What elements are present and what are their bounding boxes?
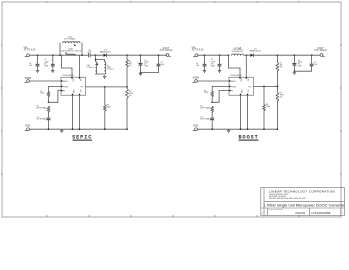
capacitor C5 output bbox=[139, 63, 143, 65]
wire C1 to gnd bbox=[37, 66, 39, 69]
node FB tap (BOOST) bbox=[263, 86, 265, 88]
wire U1 gnd pin1 drop (BOOST) bbox=[240, 95, 242, 129]
svg-text:SW: SW bbox=[246, 79, 248, 82]
node input cap C1 junction bbox=[37, 54, 39, 56]
wire FB jog to pin (BOOST) bbox=[219, 90, 229, 92]
node bottom gnd pin2 bbox=[79, 128, 81, 130]
wire SHDN to U1 (BOOST) bbox=[198, 80, 230, 82]
wire R3 to rail (BOOST) bbox=[263, 111, 265, 129]
ground below C2 bbox=[51, 69, 55, 72]
wire VIN jog vertical bbox=[61, 55, 63, 68]
wire bottom rail (BOOST) bbox=[198, 128, 278, 130]
wire chain top bbox=[48, 86, 50, 91]
node bottom R-chain bbox=[48, 128, 50, 130]
node bottom gnd1 (BOOST) bbox=[240, 128, 242, 130]
node output cap C6 junction bbox=[158, 54, 160, 56]
node bottom R3 (BOOST) bbox=[263, 128, 265, 130]
resistor R1 fb top (BOOST) bbox=[276, 63, 279, 72]
wire output gnd bus (BOOST) bbox=[294, 70, 311, 72]
node L1 right rail junction bbox=[81, 54, 83, 56]
polarity dot L1 secondary bbox=[74, 44, 76, 46]
U1 top pin SW arrowhead (BOOST) bbox=[245, 77, 247, 79]
wire C5 drop bbox=[140, 55, 142, 62]
capacitor C4 output (BOOST) bbox=[310, 64, 314, 66]
node bottom divider bbox=[126, 128, 128, 130]
node SW junction (BOOST) bbox=[245, 54, 247, 56]
svg-text:SW: SW bbox=[246, 90, 248, 93]
diode D1 bbox=[104, 53, 107, 57]
frame tick marks bbox=[1, 1, 342, 217]
capacitor C4 bbox=[89, 53, 91, 57]
wire C1 to gnd (BOOST) bbox=[204, 66, 206, 69]
wire C4 to bus (BOOST) bbox=[311, 66, 313, 71]
wire R2 to rail bbox=[126, 98, 128, 129]
svg-text:SHDN: SHDN bbox=[231, 81, 237, 83]
wire winding bottom link bbox=[96, 73, 105, 75]
connector J1 VIN (BOOST) bbox=[192, 48, 204, 57]
capacitor C1 (BOOST) bbox=[203, 64, 207, 66]
title block outline bbox=[261, 188, 345, 216]
svg-text:SHDN: SHDN bbox=[25, 78, 32, 80]
title block divider under title bbox=[261, 207, 345, 209]
wire R2 to C3 bbox=[48, 112, 50, 117]
ground symbol on bottom rail bbox=[60, 129, 64, 132]
wire SHDN to U1 bbox=[30, 80, 62, 82]
capacitor C3 output (BOOST) bbox=[292, 63, 296, 65]
capacitor C3 optional bbox=[47, 118, 51, 120]
node output divider top (BOOST) bbox=[277, 54, 279, 56]
wire C3 to rail (BOOST) bbox=[211, 120, 213, 129]
node divider-left mid bbox=[48, 101, 50, 103]
node C5 ground junction bbox=[140, 72, 142, 74]
wire FB jog to pin bbox=[58, 90, 61, 92]
ground below C5 bbox=[139, 73, 143, 76]
connector GND (SEPIC) bbox=[25, 125, 30, 131]
node FB tap bbox=[104, 86, 106, 88]
inductor L1 (BOOST) bbox=[232, 54, 244, 55]
wire divider drop (BOOST) bbox=[276, 55, 278, 62]
node input cap C1 junction (BOOST) bbox=[204, 54, 206, 56]
U1 pin3 arrowhead (BOOST) bbox=[229, 89, 231, 91]
svg-text:SHDN: SHDN bbox=[63, 81, 69, 83]
wire L1 box left side bbox=[59, 43, 61, 55]
U1 pin3 arrowhead bbox=[61, 89, 63, 91]
wire winding bottom stub bbox=[95, 60, 97, 62]
wire divider top bbox=[126, 55, 128, 59]
svg-text:SW: SW bbox=[79, 90, 81, 93]
inductor L2 winding A bbox=[96, 62, 97, 75]
wire VIN rail (BOOST) bbox=[198, 54, 229, 56]
node L1 left junction (BOOST) bbox=[228, 54, 230, 56]
wire C4 to D1 bbox=[90, 54, 103, 56]
wire D1 to VOUT bbox=[107, 54, 167, 56]
wire C6 drop bbox=[158, 55, 160, 63]
U1 top pin VIN arrowhead bbox=[71, 77, 73, 79]
ground below C1 bbox=[36, 69, 40, 72]
wire R2 to C3 (BOOST) bbox=[211, 112, 213, 117]
capacitor C6 output bbox=[157, 64, 161, 66]
U1 pin2 arrowhead (BOOST) bbox=[229, 85, 231, 87]
wire R1 to FB (BOOST) bbox=[276, 71, 278, 92]
node input cap C2 junction bbox=[52, 54, 54, 56]
wire U1 FB line right bbox=[86, 86, 128, 88]
wire R2 to rail (BOOST) bbox=[276, 101, 278, 129]
wire R3 to rail bbox=[104, 111, 106, 129]
U1 bottom pin GND2 arrowhead bbox=[78, 93, 80, 95]
svg-text:SHDN: SHDN bbox=[193, 77, 200, 79]
polarity dot L2 bbox=[97, 63, 99, 65]
wire R1 to FB node bbox=[126, 68, 128, 89]
node FB mid (BOOST) bbox=[277, 86, 279, 88]
wire chain top (BOOST) bbox=[211, 86, 213, 91]
capacitor C1 bbox=[36, 64, 40, 66]
inductor L1 secondary winding (optional) bbox=[63, 42, 80, 43]
resistor R1 (SEPIC fb top) bbox=[126, 59, 129, 67]
wire C2 drop bbox=[52, 55, 54, 63]
node output cap C4 junction (BOOST) bbox=[311, 54, 313, 56]
node C3 gnd junction (BOOST) bbox=[294, 70, 296, 72]
wire L1 box right side bbox=[81, 43, 83, 55]
connector VOUT (BOOST) bbox=[314, 48, 327, 56]
wire R1b to node (BOOST) bbox=[211, 97, 213, 103]
inductor L1 primary winding on rail bbox=[67, 54, 76, 55]
wire VIN jog horizontal (BOOST) bbox=[229, 67, 241, 69]
U1 bottom pin GND2 arrowhead (BOOST) bbox=[246, 93, 248, 95]
wire C2 to gnd (BOOST) bbox=[219, 66, 221, 69]
wire SW drop to pin (BOOST) bbox=[245, 55, 247, 77]
wire FB tap drop (BOOST) bbox=[263, 86, 265, 104]
wire C3 drop (BOOST) bbox=[293, 55, 295, 62]
wire VIN jog to pin (BOOST) bbox=[239, 68, 241, 77]
svg-text:GND: GND bbox=[193, 125, 198, 127]
wire C2 to gnd bbox=[52, 66, 54, 69]
op-amp U1 LT1610 (BOOST) body bbox=[229, 77, 254, 95]
resistor R1 shdn divider bbox=[47, 92, 50, 97]
connector SHDN (BOOST) bbox=[193, 77, 200, 82]
node input cap C2 junction (BOOST) bbox=[219, 54, 221, 56]
wire FB jog vertical (BOOST) bbox=[218, 91, 220, 103]
resistor R2 optional bbox=[47, 106, 50, 112]
wire U1 FB line right (BOOST) bbox=[254, 85, 278, 87]
node output cap C3 junction (BOOST) bbox=[294, 54, 296, 56]
title block left column line bbox=[263, 188, 265, 216]
resistor R3 comp bbox=[103, 105, 106, 111]
resistor R2 (SEPIC fb bottom) bbox=[126, 88, 129, 98]
node output cap C5 junction bbox=[140, 54, 142, 56]
wire C3 to bus (BOOST) bbox=[293, 66, 295, 72]
U1 top pin VIN arrowhead (BOOST) bbox=[239, 77, 241, 79]
node bottom gnd pin1 bbox=[72, 128, 74, 130]
wire rail to VOUT conn (BOOST) bbox=[319, 54, 321, 56]
U1 top pin SW arrowhead bbox=[78, 77, 80, 79]
node bottom R3 bbox=[104, 128, 106, 130]
wire FB jog vertical bbox=[57, 91, 59, 103]
wire C1 drop (BOOST) bbox=[204, 55, 206, 63]
wire VIN rail to C4 bbox=[30, 54, 89, 56]
wire U1 gnd pin2 drop (BOOST) bbox=[247, 95, 249, 129]
capacitor C2 (BOOST) bbox=[218, 64, 222, 66]
drawing frame border bbox=[2, 2, 341, 217]
svg-text:GND: GND bbox=[25, 125, 30, 127]
capacitor C2 bbox=[51, 64, 55, 66]
svg-text:COMP: COMP bbox=[231, 86, 237, 88]
node divider top bbox=[126, 54, 128, 56]
polarity dot L1 primary bbox=[65, 53, 66, 54]
title block bottom row cell lines bbox=[267, 208, 269, 216]
svg-text:COMP: COMP bbox=[63, 86, 69, 88]
wire node to winding top bbox=[95, 55, 97, 59]
wire FB jog horizontal bbox=[49, 101, 58, 103]
connector SHDN (SEPIC) bbox=[25, 78, 32, 83]
resistor R1 shdn divider (BOOST) bbox=[211, 91, 214, 97]
wire D1 to VOUT (BOOST) bbox=[254, 54, 321, 56]
U1 bottom pin GND1 arrowhead (BOOST) bbox=[239, 93, 241, 95]
wire pin2 line bbox=[49, 85, 62, 87]
svg-text:LINEAR TECHNOLOGY CORPORATION: LINEAR TECHNOLOGY CORPORATION bbox=[269, 189, 335, 193]
wire C3 to rail bbox=[48, 120, 50, 129]
node bottom gnd2 (BOOST) bbox=[247, 128, 249, 130]
U1 pin1 arrowhead bbox=[61, 80, 63, 82]
node L1 left rail junction bbox=[59, 54, 61, 56]
wire FB jog horizontal (BOOST) bbox=[212, 101, 219, 103]
node divider mid (BOOST) bbox=[211, 101, 213, 103]
resistor R2 fb bottom (BOOST) bbox=[276, 92, 279, 101]
connector GND (BOOST) bbox=[193, 125, 198, 131]
svg-text:DC231: DC231 bbox=[296, 211, 306, 215]
node SW-cap-inductor junction bbox=[95, 54, 97, 56]
title block divider under company bbox=[264, 201, 345, 203]
ground below winding pair bbox=[103, 75, 107, 78]
wire rail to VOUT conn bbox=[165, 54, 168, 56]
svg-text:LT1610CMS8: LT1610CMS8 bbox=[312, 211, 331, 215]
wire winding top link bbox=[96, 59, 105, 61]
wire output cap ground bus bbox=[141, 72, 159, 74]
capacitor C3 optional (BOOST) bbox=[210, 118, 214, 120]
wire winding bottom stub B bbox=[104, 60, 106, 62]
wire FB tap drop bbox=[104, 87, 106, 105]
node bottom chain (BOOST) bbox=[211, 128, 213, 130]
ground below C3 (BOOST) bbox=[293, 71, 297, 74]
wire C1 drop bbox=[37, 55, 39, 63]
wire VIN jog vertical (BOOST) bbox=[228, 55, 230, 68]
wire U1 gnd pin2 drop bbox=[79, 95, 81, 129]
node bottom divider (BOOST) bbox=[277, 128, 279, 130]
resistor R2 optional (BOOST) bbox=[211, 106, 214, 112]
wire VIN jog horizontal bbox=[62, 67, 73, 69]
wire C4 drop (BOOST) bbox=[311, 55, 313, 63]
wire L1 to D1 (BOOST) bbox=[245, 54, 251, 56]
node winding link bbox=[95, 59, 97, 61]
inductor L2 winding B bbox=[105, 62, 106, 75]
wire U1 gnd pin1 drop bbox=[72, 95, 74, 129]
wire C2 drop (BOOST) bbox=[219, 55, 221, 63]
svg-text:1.7MHz Single Cell Micropower: 1.7MHz Single Cell Micropower DC/DC Conv… bbox=[263, 204, 345, 208]
U1 pin2 arrowhead bbox=[61, 85, 63, 87]
connector J1 VIN (SEPIC) bbox=[24, 48, 36, 57]
wire C5 to gnd bus bbox=[140, 66, 142, 73]
node FB divider mid bbox=[126, 86, 128, 88]
U1 bottom pin GND1 arrowhead bbox=[71, 93, 73, 95]
ground below C2 (BOOST) bbox=[218, 69, 222, 72]
ground on bottom rail (BOOST) bbox=[227, 129, 231, 132]
op-amp U1 LT1610 (SEPIC) body bbox=[61, 77, 86, 95]
wire bottom rail (SEPIC) bbox=[30, 128, 128, 130]
wire VIN jog to pin bbox=[71, 68, 73, 77]
wire C6 to gnd bus bbox=[158, 66, 160, 72]
connector J2 VOUT (SEPIC) bbox=[160, 48, 173, 56]
wire pin2 line (BOOST) bbox=[212, 85, 229, 87]
ground below C1 (BOOST) bbox=[203, 69, 207, 72]
U1 pin1 arrowhead (BOOST) bbox=[229, 80, 231, 82]
diode D1 (BOOST) bbox=[251, 53, 254, 57]
wire SW drop to pin bbox=[79, 55, 81, 77]
wire R1b to node bbox=[48, 97, 50, 103]
resistor R3 comp (BOOST) bbox=[263, 104, 266, 110]
